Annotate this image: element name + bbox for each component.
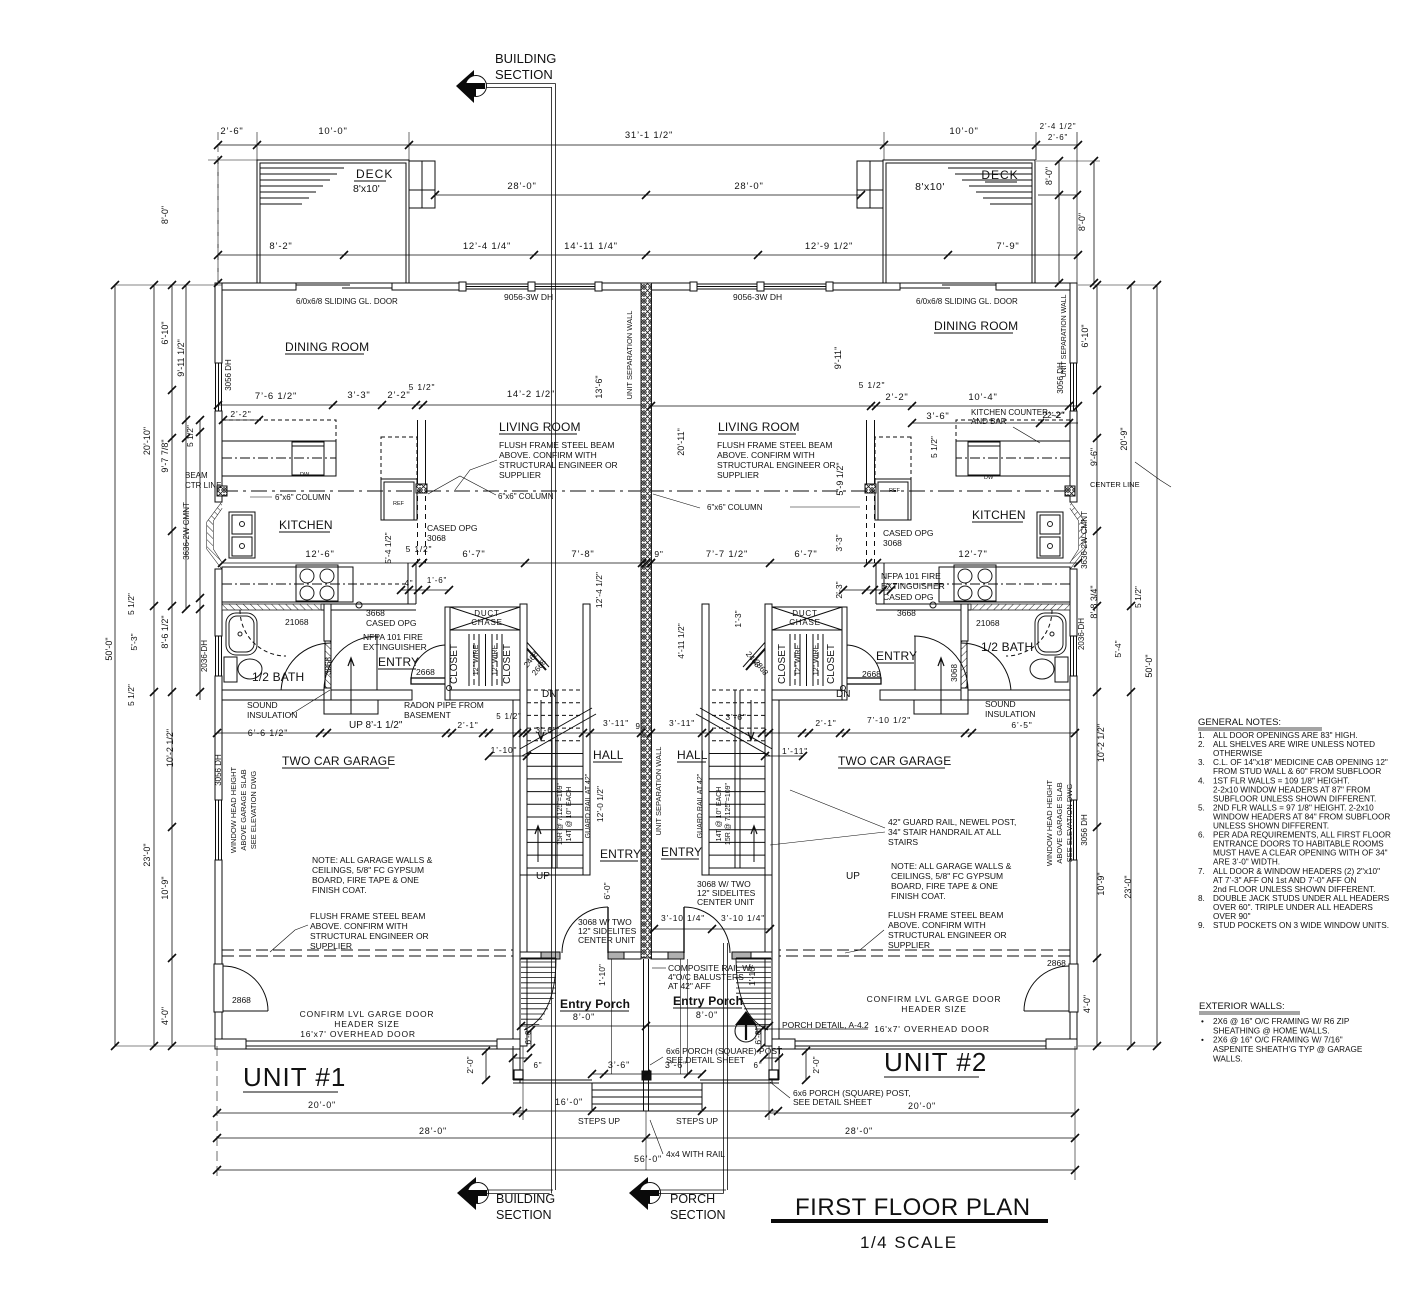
svg-text:12’-6": 12’-6": [305, 549, 334, 560]
svg-text:5’-4": 5’-4": [1113, 640, 1123, 657]
svg-text:HALL: HALL: [593, 748, 624, 762]
svg-text:4’-0": 4’-0": [1082, 995, 1092, 1013]
svg-text:5 1/2": 5 1/2": [185, 425, 195, 447]
svg-text:14T @ 10" EACH: 14T @ 10" EACH: [716, 787, 723, 842]
svg-text:8’-0": 8’-0": [1044, 167, 1054, 185]
svg-text:DINING ROOM: DINING ROOM: [285, 340, 369, 354]
svg-text:WALLS.: WALLS.: [1213, 1054, 1243, 1063]
svg-text:1/2 BATH: 1/2 BATH: [252, 670, 304, 684]
svg-text:2ND FLR WALLS = 97 1/8" HEIGHT: 2ND FLR WALLS = 97 1/8" HEIGHT. 2-2x10: [1213, 803, 1374, 812]
svg-text:INSULATION: INSULATION: [247, 710, 297, 720]
svg-text:EXTERIOR WALLS:: EXTERIOR WALLS:: [1199, 1001, 1285, 1012]
svg-text:12’-4 1/2": 12’-4 1/2": [594, 572, 604, 608]
svg-text:8’-8 3/4": 8’-8 3/4": [1089, 585, 1099, 618]
svg-text:UP 8’-1 1/2": UP 8’-1 1/2": [349, 720, 403, 731]
svg-text:2036-DH: 2036-DH: [1077, 618, 1086, 650]
svg-text:Entry Porch: Entry Porch: [560, 997, 630, 1011]
svg-text:NOTE: ALL GARAGE WALLS &: NOTE: ALL GARAGE WALLS &: [312, 855, 433, 865]
svg-text:1’-3": 1’-3": [733, 610, 743, 627]
svg-text:2.: 2.: [1198, 740, 1205, 749]
svg-text:NFPA 101 FIRE: NFPA 101 FIRE: [363, 632, 423, 642]
svg-text:6’-10": 6’-10": [1080, 324, 1090, 347]
svg-text:ABOVE GARAGE SLAB: ABOVE GARAGE SLAB: [1055, 782, 1064, 863]
svg-text:CENTER LINE: CENTER LINE: [1090, 480, 1140, 489]
svg-text:6’-0": 6’-0": [753, 1027, 763, 1044]
svg-text:GUARD RAIL AT 42": GUARD RAIL AT 42": [697, 773, 704, 838]
exterior top wall: [215, 283, 296, 290]
svg-text:10’-9": 10’-9": [160, 876, 170, 899]
svg-text:HEADER SIZE: HEADER SIZE: [334, 1019, 399, 1029]
svg-text:3668: 3668: [897, 608, 916, 618]
svg-text:9’-11 1/2": 9’-11 1/2": [176, 339, 186, 377]
svg-text:2’-2": 2’-2": [885, 392, 908, 403]
svg-text:BOARD, FIRE TAPE & ONE: BOARD, FIRE TAPE & ONE: [312, 875, 419, 885]
svg-text:2X6 @ 16" O/C FRAMING W/ 7/16": 2X6 @ 16" O/C FRAMING W/ 7/16": [1213, 1036, 1343, 1045]
svg-text:ABOVE. CONFIRM WITH: ABOVE. CONFIRM WITH: [499, 450, 597, 460]
svg-text:REF: REF: [889, 488, 901, 494]
svg-text:EXTINGUISHER: EXTINGUISHER: [881, 581, 945, 591]
svg-text:SUPPLIER: SUPPLIER: [717, 470, 759, 480]
svg-text:3’-11": 3’-11": [603, 718, 629, 728]
svg-text:9056-3W DH: 9056-3W DH: [504, 292, 553, 302]
svg-text:6"x6" COLUMN: 6"x6" COLUMN: [707, 503, 763, 512]
svg-text:OTHERWISE: OTHERWISE: [1213, 749, 1263, 758]
svg-text:5.: 5.: [1198, 803, 1205, 812]
svg-text:CONFIRM LVL GARGE DOOR: CONFIRM LVL GARGE DOOR: [300, 1009, 435, 1019]
svg-text:DUCT: DUCT: [792, 609, 817, 618]
svg-text:STUD POCKETS ON 3 WIDE WINDOW: STUD POCKETS ON 3 WIDE WINDOW UNITS.: [1213, 921, 1389, 930]
svg-text:NFPA 101 FIRE: NFPA 101 FIRE: [881, 571, 941, 581]
svg-text:FIRST FLOOR PLAN: FIRST FLOOR PLAN: [795, 1194, 1031, 1221]
svg-text:20’-9": 20’-9": [1119, 427, 1129, 450]
svg-text:CENTER UNIT: CENTER UNIT: [697, 897, 754, 907]
kitchen counters and appliances: [222, 441, 336, 476]
svg-text:15R @ 7.125"=109": 15R @ 7.125"=109": [557, 782, 564, 845]
svg-text:3’-6": 3’-6": [725, 712, 746, 722]
svg-text:5’-4 1/2": 5’-4 1/2": [383, 532, 393, 563]
svg-text:21068: 21068: [976, 618, 1000, 628]
svg-text:SUPPLIER: SUPPLIER: [888, 940, 930, 950]
svg-text:3’-11": 3’-11": [669, 718, 695, 728]
svg-text:ASPENITE SHEATH’G TYP @ GARAGE: ASPENITE SHEATH’G TYP @ GARAGE: [1213, 1045, 1363, 1054]
svg-text:12" WIRE: 12" WIRE: [492, 644, 499, 675]
svg-text:4’-11 1/2": 4’-11 1/2": [676, 623, 686, 658]
svg-text:1’-10": 1’-10": [597, 964, 607, 986]
svg-text:ABOVE. CONFIRM WITH: ABOVE. CONFIRM WITH: [888, 920, 986, 930]
svg-text:OVER 60". TRIPLE UNDER ALL HEA: OVER 60". TRIPLE UNDER ALL HEADERS: [1213, 903, 1373, 912]
unit separation wall and porch: [641, 283, 652, 958]
svg-text:2’-2": 2’-2": [230, 409, 251, 419]
svg-text:10’-0": 10’-0": [318, 126, 347, 137]
svg-text:SECTION: SECTION: [495, 67, 553, 82]
svg-text:CTR LINE: CTR LINE: [185, 481, 221, 490]
svg-text:ENTRY: ENTRY: [378, 655, 419, 669]
svg-text:7’-6 1/2": 7’-6 1/2": [255, 391, 297, 402]
svg-text:BUILDING: BUILDING: [495, 51, 556, 66]
svg-text:9’-7 7/8": 9’-7 7/8": [160, 439, 170, 472]
svg-text:FLUSH FRAME STEEL BEAM: FLUSH FRAME STEEL BEAM: [717, 440, 832, 450]
svg-text:28’-0": 28’-0": [507, 181, 536, 192]
svg-text:ENTRY: ENTRY: [661, 845, 702, 859]
svg-text:8'x10': 8'x10': [915, 181, 945, 193]
svg-text:3068: 3068: [883, 538, 902, 548]
svg-text:BASEMENT: BASEMENT: [404, 710, 451, 720]
svg-text:CONFIRM LVL GARGE DOOR: CONFIRM LVL GARGE DOOR: [867, 994, 1002, 1004]
svg-text:SHEATHING @ HOME WALLS.: SHEATHING @ HOME WALLS.: [1213, 1026, 1330, 1035]
svg-text:SEE ELEVATION DWG: SEE ELEVATION DWG: [249, 771, 258, 850]
svg-text:ENTRANCE DOORS TO HABITABLE RO: ENTRANCE DOORS TO HABITABLE ROOMS: [1213, 840, 1384, 849]
svg-text:8’-0": 8’-0": [1077, 213, 1087, 231]
svg-text:STRUCTURAL ENGINEER OR: STRUCTURAL ENGINEER OR: [499, 460, 618, 470]
svg-text:ABOVE. CONFIRM WITH: ABOVE. CONFIRM WITH: [310, 921, 408, 931]
svg-text:2868: 2868: [1047, 958, 1066, 968]
svg-text:10’-2 1/2": 10’-2 1/2": [1096, 724, 1106, 762]
svg-text:2’-1": 2’-1": [815, 718, 836, 728]
svg-text:9’-11": 9’-11": [833, 347, 843, 370]
dimension lines: [218, 144, 1078, 146]
svg-text:5 1/2": 5 1/2": [406, 544, 433, 554]
svg-text:15R @ 7.125"=109": 15R @ 7.125"=109": [725, 782, 732, 845]
svg-text:AT 42" AFF: AT 42" AFF: [668, 981, 711, 991]
half bath fixtures and walls: [222, 604, 321, 610]
svg-text:DUCT: DUCT: [474, 609, 499, 618]
svg-text:9’-6": 9’-6": [1089, 448, 1099, 466]
svg-text:HEADER SIZE: HEADER SIZE: [901, 1004, 966, 1014]
svg-text:2’-2": 2’-2": [387, 390, 410, 401]
svg-text:2’-6": 2’-6": [220, 126, 243, 137]
svg-text:LIVING ROOM: LIVING ROOM: [718, 420, 800, 434]
svg-text:50’-0": 50’-0": [1144, 654, 1154, 677]
svg-text:FROM STUD WALL & 60" FROM SUBF: FROM STUD WALL & 60" FROM SUBFLOOR: [1213, 767, 1381, 776]
svg-text:STEPS UP: STEPS UP: [578, 1116, 620, 1126]
svg-text:TWO CAR GARAGE: TWO CAR GARAGE: [282, 754, 395, 768]
svg-text:6’-5": 6’-5": [1011, 720, 1032, 730]
svg-text:UNIT #1: UNIT #1: [243, 1062, 346, 1092]
svg-text:2’-2": 2’-2": [1042, 410, 1065, 421]
svg-text:20’-0": 20’-0": [908, 1101, 936, 1111]
svg-text:12" WIRE: 12" WIRE: [813, 644, 820, 675]
svg-text:12" WIRE: 12" WIRE: [473, 644, 480, 675]
svg-text:1’-11": 1’-11": [782, 746, 808, 756]
svg-text:8’-6 1/2": 8’-6 1/2": [160, 615, 170, 648]
svg-text:4’-0": 4’-0": [160, 1007, 170, 1025]
svg-text:6’-7": 6’-7": [462, 549, 485, 560]
svg-text:7’-10 1/2": 7’-10 1/2": [867, 715, 911, 725]
svg-text:UNIT SEPARATION WALL: UNIT SEPARATION WALL: [654, 747, 663, 836]
svg-text:1’-10": 1’-10": [747, 964, 757, 986]
svg-text:4": 4": [405, 579, 414, 588]
svg-text:FINISH COAT.: FINISH COAT.: [312, 885, 367, 895]
svg-text:SUPPLIER: SUPPLIER: [310, 941, 352, 951]
svg-text:6"x6" COLUMN: 6"x6" COLUMN: [498, 492, 554, 501]
svg-text:WINDOW HEADERS AT 84" FROM SUB: WINDOW HEADERS AT 84" FROM SUBFLOOR: [1213, 812, 1390, 821]
duct chase and closets: [450, 607, 520, 630]
section marker lines and symbols: [551, 87, 553, 1194]
svg-text:12’-4 1/4": 12’-4 1/4": [463, 241, 511, 252]
svg-text:12’-9 1/2": 12’-9 1/2": [805, 241, 853, 252]
svg-text:3’-10 1/4": 3’-10 1/4": [661, 913, 705, 923]
svg-text:12’-0 1/2": 12’-0 1/2": [595, 786, 605, 822]
svg-text:FLUSH FRAME STEEL BEAM: FLUSH FRAME STEEL BEAM: [310, 911, 425, 921]
svg-text:KITCHEN: KITCHEN: [279, 518, 333, 532]
svg-text:2’-1": 2’-1": [457, 720, 478, 730]
svg-text:UP: UP: [846, 871, 860, 882]
svg-text:23’-0": 23’-0": [142, 843, 152, 866]
svg-text:3’-3": 3’-3": [834, 534, 844, 551]
svg-text:14’-11 1/4": 14’-11 1/4": [564, 241, 618, 252]
svg-text:ENTRY: ENTRY: [876, 649, 917, 663]
svg-text:8’-0": 8’-0": [160, 206, 170, 224]
svg-text:20’-0": 20’-0": [308, 1100, 336, 1110]
stairs: [520, 604, 527, 875]
svg-text:5 1/2": 5 1/2": [1133, 586, 1143, 608]
svg-text:8’-0": 8’-0": [696, 1010, 718, 1020]
svg-text:7.: 7.: [1198, 867, 1205, 876]
svg-text:ALL SHELVES ARE WIRE UNLESS NO: ALL SHELVES ARE WIRE UNLESS NOTED: [1213, 740, 1375, 749]
svg-text:23’-0": 23’-0": [1123, 875, 1133, 898]
svg-text:2nd FLOOR UNLESS SHOWN DIFFERE: 2nd FLOOR UNLESS SHOWN DIFFERENT.: [1213, 885, 1375, 894]
svg-text:2’-0": 2’-0": [465, 1056, 475, 1073]
svg-text:TWO CAR GARAGE: TWO CAR GARAGE: [838, 754, 951, 768]
svg-text:16'x7' OVERHEAD DOOR: 16'x7' OVERHEAD DOOR: [874, 1024, 990, 1034]
svg-text:9056-3W DH: 9056-3W DH: [733, 292, 782, 302]
svg-text:10’-4": 10’-4": [968, 392, 997, 403]
svg-text:C.L. OF 14"x18" MEDICINE CAB O: C.L. OF 14"x18" MEDICINE CAB OPENING 12": [1213, 758, 1388, 767]
svg-text:ENTRY: ENTRY: [600, 847, 641, 861]
svg-text:UNIT SEPARATION WALL: UNIT SEPARATION WALL: [625, 311, 634, 400]
svg-text:8’-2": 8’-2": [269, 241, 292, 252]
svg-text:5 1/2": 5 1/2": [409, 382, 436, 392]
svg-text:12’-7": 12’-7": [958, 549, 987, 560]
svg-text:14’-2 1/2": 14’-2 1/2": [507, 389, 555, 400]
svg-text:DINING ROOM: DINING ROOM: [934, 319, 1018, 333]
svg-text:34" STAIR HANDRAIL AT ALL: 34" STAIR HANDRAIL AT ALL: [888, 827, 1002, 837]
svg-text:9": 9": [636, 722, 645, 731]
svg-text:21068: 21068: [285, 617, 309, 627]
svg-text:3668: 3668: [366, 608, 385, 618]
svg-text:UNLESS SHOWN DIFFERENT.: UNLESS SHOWN DIFFERENT.: [1213, 822, 1329, 831]
svg-text:UNIT #2: UNIT #2: [884, 1047, 987, 1077]
svg-text:ABOVE. CONFIRM WITH: ABOVE. CONFIRM WITH: [717, 450, 815, 460]
svg-text:SUBFLOOR UNLESS SHOWN DIFFEREN: SUBFLOOR UNLESS SHOWN DIFFERENT.: [1213, 794, 1376, 803]
svg-text:3.: 3.: [1198, 758, 1205, 767]
svg-text:8’-0": 8’-0": [573, 1012, 595, 1022]
svg-text:STRUCTURAL ENGINEER OR: STRUCTURAL ENGINEER OR: [310, 931, 429, 941]
svg-text:31’-1 1/2": 31’-1 1/2": [625, 130, 673, 141]
svg-text:1/2 BATH: 1/2 BATH: [981, 640, 1033, 654]
svg-text:2868: 2868: [232, 995, 251, 1005]
svg-text:NOTE: ALL GARAGE WALLS &: NOTE: ALL GARAGE WALLS &: [891, 861, 1012, 871]
svg-text:RADON PIPE FROM: RADON PIPE FROM: [404, 700, 484, 710]
svg-text:WINDOW HEAD HEIGHT: WINDOW HEAD HEIGHT: [229, 766, 238, 853]
svg-text:5’-3": 5’-3": [129, 633, 139, 650]
svg-text:1.: 1.: [1198, 731, 1205, 740]
svg-text:DW: DW: [984, 475, 994, 481]
svg-text:DW: DW: [300, 472, 310, 478]
svg-text:6/0x6/8 SLIDING GL. DOOR: 6/0x6/8 SLIDING GL. DOOR: [296, 297, 398, 306]
svg-text:3056 DH: 3056 DH: [1080, 814, 1089, 846]
svg-text:STRUCTURAL ENGINEER OR: STRUCTURAL ENGINEER OR: [888, 930, 1007, 940]
svg-text:56’-0": 56’-0": [634, 1154, 662, 1164]
svg-text:7’-9": 7’-9": [996, 241, 1019, 252]
svg-text:16’-0": 16’-0": [555, 1097, 583, 1107]
svg-text:8.: 8.: [1198, 894, 1205, 903]
svg-text:SUPPLIER: SUPPLIER: [499, 470, 541, 480]
svg-text:7’-7 1/2": 7’-7 1/2": [706, 549, 748, 560]
svg-text:AT 7’-3" AFF ON 1st AND 7’-0": AT 7’-3" AFF ON 1st AND 7’-0" AFF ON: [1213, 876, 1356, 885]
hall walls and front entry: [520, 875, 527, 1046]
svg-text:SOUND: SOUND: [247, 700, 278, 710]
svg-text:CASED OPG: CASED OPG: [883, 528, 934, 538]
svg-text:3’-6": 3’-6": [926, 411, 949, 422]
svg-text:16'x7' OVERHEAD DOOR: 16'x7' OVERHEAD DOOR: [300, 1029, 416, 1039]
svg-text:INSULATION: INSULATION: [985, 709, 1035, 719]
svg-text:4.: 4.: [1198, 776, 1205, 785]
svg-text:FINISH COAT.: FINISH COAT.: [891, 891, 946, 901]
svg-text:1/4 SCALE: 1/4 SCALE: [860, 1233, 958, 1252]
svg-text:OVER 90": OVER 90": [1213, 912, 1251, 921]
svg-text:3636-2W CMNT: 3636-2W CMNT: [182, 502, 191, 560]
svg-text:REF: REF: [393, 501, 405, 507]
svg-text:3636-2W CMNT: 3636-2W CMNT: [1080, 511, 1089, 569]
svg-text:STAIRS: STAIRS: [888, 837, 918, 847]
svg-text:28’-0": 28’-0": [734, 181, 763, 192]
svg-text:•: •: [1201, 1036, 1204, 1045]
svg-text:CHASE: CHASE: [471, 618, 503, 627]
svg-text:KITCHEN: KITCHEN: [972, 508, 1026, 522]
svg-text:5’-9 1/2": 5’-9 1/2": [835, 462, 845, 495]
svg-text:GUARD RAIL AT 42": GUARD RAIL AT 42": [585, 773, 592, 838]
svg-text:10’-2 1/2": 10’-2 1/2": [165, 729, 175, 767]
svg-text:DECK: DECK: [356, 167, 393, 181]
svg-text:13’-6": 13’-6": [594, 375, 604, 398]
svg-text:ABOVE GARAGE SLAB: ABOVE GARAGE SLAB: [239, 769, 248, 850]
svg-text:HALL: HALL: [677, 748, 708, 762]
svg-text:20’-10": 20’-10": [142, 427, 152, 455]
svg-text:7’-8": 7’-8": [571, 549, 594, 560]
svg-text:5 1/2": 5 1/2": [496, 712, 521, 721]
svg-text:SEE DETAIL SHEET: SEE DETAIL SHEET: [793, 1097, 872, 1107]
svg-text:SOUND: SOUND: [985, 699, 1016, 709]
svg-text:CASED OPG: CASED OPG: [427, 523, 478, 533]
svg-text:CLOSET: CLOSET: [777, 644, 788, 684]
svg-text:6.: 6.: [1198, 831, 1205, 840]
svg-text:9": 9": [654, 549, 663, 559]
svg-text:2X6 @ 16" O/C FRAMING W/ R6 ZI: 2X6 @ 16" O/C FRAMING W/ R6 ZIP: [1213, 1017, 1350, 1026]
svg-text:FLUSH FRAME STEEL BEAM: FLUSH FRAME STEEL BEAM: [499, 440, 614, 450]
svg-text:FLUSH FRAME STEEL BEAM: FLUSH FRAME STEEL BEAM: [888, 910, 1003, 920]
svg-text:WINDOW HEAD HEIGHT: WINDOW HEAD HEIGHT: [1045, 779, 1054, 866]
svg-text:2’-6": 2’-6": [1048, 133, 1068, 142]
svg-text:2036-DH: 2036-DH: [200, 640, 209, 672]
svg-text:EXTINGUISHER: EXTINGUISHER: [363, 642, 427, 652]
svg-text:6’-10": 6’-10": [160, 321, 170, 344]
svg-text:6/0x6/8 SLIDING GL. DOOR: 6/0x6/8 SLIDING GL. DOOR: [916, 297, 1018, 306]
svg-text:14T @ 10" EACH: 14T @ 10" EACH: [566, 787, 573, 842]
svg-text:CEILINGS, 5/8" FC GYPSUM: CEILINGS, 5/8" FC GYPSUM: [891, 871, 1003, 881]
svg-text:6’-6 1/2": 6’-6 1/2": [248, 728, 288, 738]
svg-text:5 1/2": 5 1/2": [126, 684, 136, 706]
svg-text:2’-3": 2’-3": [834, 581, 844, 598]
garage walls and overhead door: [513, 700, 520, 1046]
svg-text:DOUBLE JACK STUDS UNDER ALL HE: DOUBLE JACK STUDS UNDER ALL HEADERS: [1213, 894, 1390, 903]
svg-text:CLOSET: CLOSET: [826, 644, 837, 684]
svg-text:CLOSET: CLOSET: [449, 644, 460, 684]
svg-text:CHASE: CHASE: [789, 618, 821, 627]
svg-text:2’-4 1/2": 2’-4 1/2": [1040, 122, 1077, 131]
svg-text:3068: 3068: [427, 533, 446, 543]
svg-text:6’-0": 6’-0": [523, 1027, 533, 1044]
svg-text:1ST FLR WALLS = 109 1/8" HEIGH: 1ST FLR WALLS = 109 1/8" HEIGHT.: [1213, 776, 1349, 785]
svg-text:GENERAL NOTES:: GENERAL NOTES:: [1198, 717, 1281, 728]
svg-text:6": 6": [754, 1061, 763, 1070]
svg-text:6": 6": [534, 1061, 543, 1070]
svg-text:3068: 3068: [950, 664, 959, 682]
svg-text:6’-0": 6’-0": [602, 882, 612, 899]
svg-text:50’-0": 50’-0": [104, 637, 114, 660]
svg-text:2668: 2668: [862, 669, 881, 679]
svg-text:8'x10': 8'x10': [353, 183, 380, 195]
svg-text:3’-6": 3’-6": [535, 725, 556, 735]
svg-text:3’-6": 3’-6": [608, 1060, 630, 1070]
svg-text:4x4 WITH RAIL: 4x4 WITH RAIL: [666, 1149, 725, 1159]
svg-text:Entry Porch: Entry Porch: [673, 994, 743, 1008]
svg-text:SECTION: SECTION: [670, 1208, 726, 1222]
svg-text:UNIT SEPARATION WALL: UNIT SEPARATION WALL: [1061, 294, 1068, 377]
svg-text:6"x6" COLUMN: 6"x6" COLUMN: [275, 493, 331, 502]
svg-text:UP: UP: [536, 871, 550, 882]
svg-text:1’-6": 1’-6": [427, 576, 447, 585]
svg-text:PER ADA REQUIREMENTS, ALL FIRS: PER ADA REQUIREMENTS, ALL FIRST FLOOR: [1213, 831, 1391, 840]
exterior left wall: [215, 283, 222, 363]
svg-text:DN: DN: [542, 689, 556, 700]
svg-text:BUILDING: BUILDING: [496, 1192, 555, 1206]
svg-text:3’-3": 3’-3": [347, 390, 370, 401]
svg-text:ARE 3’-0" WIDTH.: ARE 3’-0" WIDTH.: [1213, 858, 1280, 867]
svg-text:CEILINGS, 5/8" FC GYPSUM: CEILINGS, 5/8" FC GYPSUM: [312, 865, 424, 875]
svg-text:5 1/2": 5 1/2": [929, 436, 939, 458]
svg-text:6’-7": 6’-7": [794, 549, 817, 560]
svg-text:CLOSET: CLOSET: [502, 644, 513, 684]
svg-text:BEAM: BEAM: [185, 471, 208, 480]
svg-text:ALL DOOR & WINDOW HEADERS (2): ALL DOOR & WINDOW HEADERS (2) 2"x10": [1213, 867, 1380, 876]
svg-text:STRUCTURAL ENGINEER OR: STRUCTURAL ENGINEER OR: [717, 460, 836, 470]
svg-text:2’-0": 2’-0": [811, 1056, 821, 1073]
svg-text:KITCHEN COUNTER: KITCHEN COUNTER: [971, 408, 1048, 417]
svg-text:9.: 9.: [1198, 921, 1205, 930]
svg-text:3068: 3068: [324, 657, 333, 675]
svg-text:•: •: [1201, 1017, 1204, 1026]
svg-text:DN: DN: [836, 689, 850, 700]
svg-text:10’-0": 10’-0": [949, 126, 978, 137]
svg-text:SEE ELEVATION DWG: SEE ELEVATION DWG: [1065, 784, 1074, 863]
svg-text:PORCH DETAIL, A-4.2: PORCH DETAIL, A-4.2: [782, 1020, 869, 1030]
svg-text:BOARD, FIRE TAPE & ONE: BOARD, FIRE TAPE & ONE: [891, 881, 998, 891]
svg-text:SECTION: SECTION: [496, 1208, 552, 1222]
svg-text:28’-0": 28’-0": [419, 1126, 447, 1136]
svg-text:DECK: DECK: [981, 168, 1018, 182]
svg-text:10’-9": 10’-9": [1096, 872, 1106, 895]
svg-text:CENTER UNIT: CENTER UNIT: [578, 935, 635, 945]
svg-text:5 1/2": 5 1/2": [859, 380, 886, 390]
svg-text:1’-10": 1’-10": [491, 745, 518, 755]
svg-text:PORCH: PORCH: [670, 1192, 715, 1206]
svg-text:AND BAR: AND BAR: [971, 417, 1007, 426]
svg-text:2668: 2668: [416, 667, 435, 677]
svg-text:MUST HAVE A CLEAR OPENING WIT: MUST HAVE A CLEAR OPENING WITH OF 34": [1213, 849, 1388, 858]
svg-text:42" GUARD RAIL, NEWEL POST,: 42" GUARD RAIL, NEWEL POST,: [888, 817, 1016, 827]
svg-text:5 1/2": 5 1/2": [126, 593, 136, 615]
